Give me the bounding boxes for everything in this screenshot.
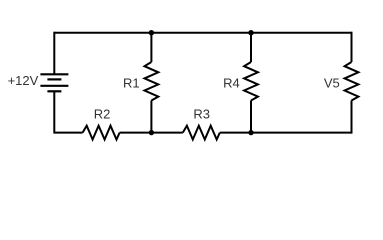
wire left branch above battery (53, 32, 55, 75)
node junction top R4 (248, 30, 253, 35)
wire V5 top stub (351, 32, 353, 62)
wire R1 top stub (150, 33, 152, 62)
resistor R4 zigzag (244, 62, 258, 101)
svg-text:R1: R1 (123, 75, 140, 90)
wire left branch below battery (53, 91, 55, 133)
wire R1 bottom stub (150, 101, 152, 133)
resistor V5 zigzag (345, 62, 359, 101)
wire V5 bottom stub (351, 101, 353, 134)
wire top rail (54, 32, 351, 34)
svg-text:R3: R3 (193, 106, 210, 121)
node junction top R1 (149, 30, 154, 35)
resistor R1 zigzag (145, 62, 159, 101)
wire bottom rail segment right of R3 (220, 132, 352, 134)
svg-text:R2: R2 (94, 106, 111, 121)
wire bottom rail segment left of R2 (54, 132, 82, 134)
svg-text:V5: V5 (324, 75, 340, 90)
wire bottom rail segment between R2 and R3 (120, 132, 183, 134)
wire R4 bottom stub (250, 101, 252, 133)
svg-text:R4: R4 (223, 75, 240, 90)
node junction bottom R4 (248, 130, 253, 135)
svg-text:+12V: +12V (8, 73, 39, 88)
node junction bottom R1 (149, 130, 154, 135)
battery V1 +12V plates (40, 74, 68, 91)
resistor R2 zigzag (83, 126, 120, 140)
resistor R3 zigzag (183, 126, 220, 140)
wire R4 top stub (250, 33, 252, 62)
